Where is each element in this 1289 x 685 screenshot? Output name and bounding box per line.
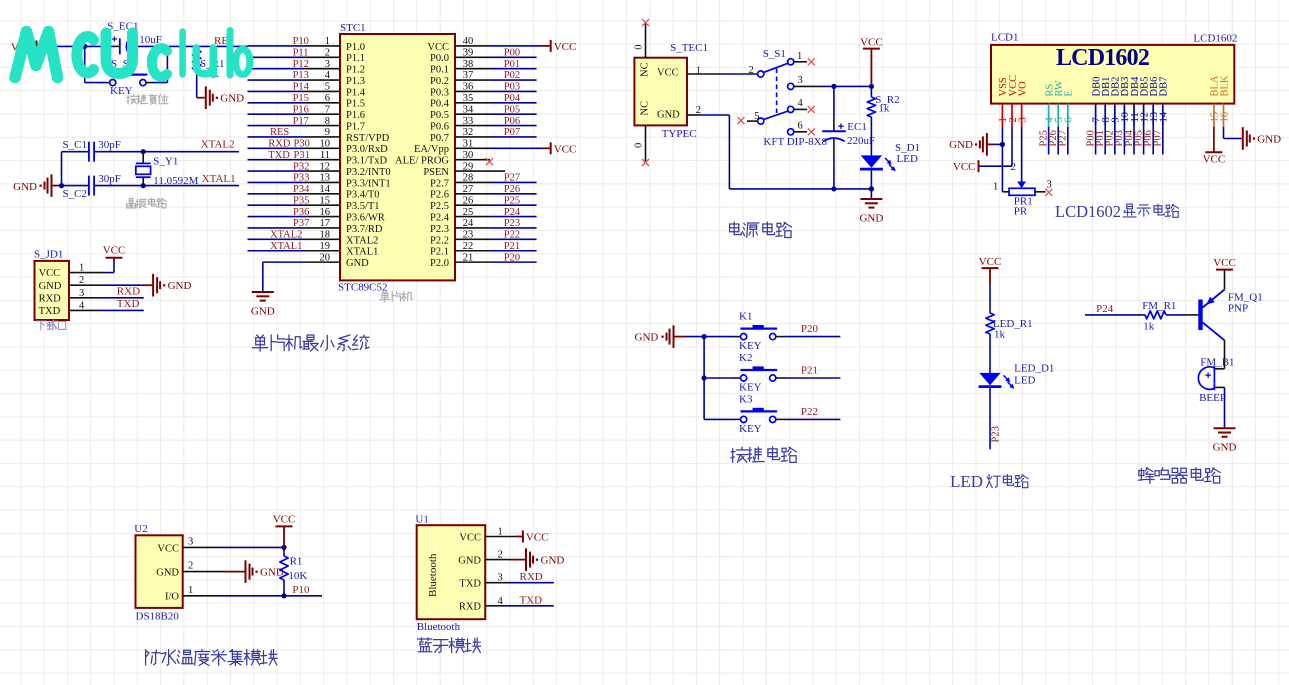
wires RS RW E nets [1048, 127, 1050, 155]
power VCC (backlight) [1205, 151, 1222, 153]
svg-text:K2: K2 [739, 352, 752, 364]
caption crystal circuit (gray) [127, 199, 136, 208]
svg-text:GND: GND [949, 139, 973, 151]
svg-text:TXD: TXD [459, 579, 481, 590]
no-connect X bottom [642, 159, 649, 166]
svg-text:TXD: TXD [39, 306, 61, 317]
svg-text:P3.6/WR: P3.6/WR [346, 213, 385, 224]
svg-text:P3.7/RD: P3.7/RD [346, 224, 383, 235]
bottom rail wire [729, 188, 871, 190]
svg-text:VCC: VCC [1213, 257, 1236, 269]
svg-text:K3: K3 [739, 393, 753, 405]
no-connect X pin30 [486, 158, 493, 165]
svg-text:LED: LED [897, 153, 918, 165]
svg-text:P0.7: P0.7 [430, 133, 449, 144]
wire U2 pin1 I/O [183, 595, 220, 597]
wire LED to GND [870, 169, 872, 199]
svg-text:S_S1: S_S1 [763, 48, 786, 60]
svg-text:PR: PR [1014, 205, 1028, 217]
svg-text:GND: GND [260, 567, 284, 579]
svg-text:TXD: TXD [268, 150, 290, 161]
svg-text:GND: GND [657, 109, 680, 120]
svg-text:2: 2 [749, 65, 754, 76]
svg-text:VCC: VCC [459, 532, 481, 543]
resistor R1 10K [283, 547, 285, 556]
no-connect X top [642, 19, 649, 26]
wire pin31 to VCC [490, 147, 541, 149]
wire EC1 to bottom rail [833, 139, 835, 156]
svg-text:STC1: STC1 [340, 22, 366, 34]
wire collector to buzzer [1224, 340, 1226, 369]
wire pin2 to GND [69, 284, 102, 286]
caption key-reset (gray) [127, 95, 137, 104]
wire K3 to P22 [776, 418, 786, 420]
caption waterproof temperature module [146, 650, 161, 665]
svg-text:P2.6: P2.6 [430, 190, 449, 201]
svg-text:3: 3 [188, 536, 193, 547]
svg-text:VCC: VCC [953, 161, 976, 173]
svg-text:VCC: VCC [427, 42, 449, 53]
svg-text:1: 1 [993, 181, 998, 192]
caption buzzer circuit [1138, 468, 1154, 484]
wire S_S2 to RES net [146, 82, 150, 84]
svg-text:XTAL1: XTAL1 [202, 173, 236, 185]
no-connect X switch pin1 [808, 58, 815, 65]
svg-text:GND: GND [156, 568, 179, 579]
svg-text:P32: P32 [293, 161, 309, 172]
capacitor EC1 220uF [822, 130, 846, 132]
svg-text:P1.2: P1.2 [346, 65, 365, 76]
switch S_S2 (KEY) [110, 80, 116, 86]
svg-text:6: 6 [1064, 117, 1075, 122]
resistor S_R2 1k [870, 86, 872, 97]
svg-text:P12: P12 [293, 59, 309, 70]
power VCC (U1) [522, 531, 524, 543]
svg-text:TXD: TXD [520, 594, 543, 606]
caption key circuit [731, 447, 748, 462]
svg-text:GND: GND [1257, 134, 1281, 146]
ic LCD1 LCD1602 [991, 45, 1234, 104]
svg-text:P0.1: P0.1 [430, 65, 449, 76]
caption download port (gray) [36, 321, 46, 330]
node junction cap top [831, 84, 836, 89]
wire emitter to VCC [1224, 270, 1226, 290]
switch pin 3 [788, 83, 794, 89]
wire K1 to P20 [776, 336, 786, 338]
svg-text:LCD1: LCD1 [991, 32, 1019, 44]
svg-text:P1.0: P1.0 [346, 42, 365, 53]
svg-text:P3.2/INT0: P3.2/INT0 [346, 167, 391, 178]
svg-text:S_C2: S_C2 [63, 188, 87, 200]
svg-text:P10: P10 [292, 584, 310, 596]
svg-text:XTAL2: XTAL2 [201, 139, 235, 151]
svg-text:P3.4/T0: P3.4/T0 [346, 190, 380, 201]
switch K1 (KEY) [741, 334, 747, 340]
svg-text:LCD1602: LCD1602 [1056, 45, 1149, 71]
pins LCD1602 [1001, 104, 1003, 127]
svg-text:S_TEC1: S_TEC1 [670, 42, 708, 54]
switch pin 4 [788, 106, 794, 112]
power VCC (reset) [36, 40, 38, 52]
svg-text:RXD: RXD [459, 602, 482, 613]
wire pin3 to VCC rail [794, 85, 823, 87]
svg-text:P27: P27 [1058, 130, 1069, 146]
svg-text:TXD: TXD [117, 298, 140, 310]
capacitor S_C1 30pF [62, 151, 89, 153]
svg-text:VCC: VCC [103, 245, 126, 257]
svg-text:BLK: BLK [1219, 75, 1230, 96]
svg-text:P04: P04 [504, 93, 521, 104]
wire VCC rail down [870, 49, 872, 87]
power VCC (S_JD1) [106, 257, 123, 259]
switch pin 6 [788, 129, 794, 135]
svg-text:P22: P22 [801, 406, 818, 418]
svg-text:S_JD1: S_JD1 [34, 249, 63, 261]
wire GND to junction [52, 185, 62, 187]
wire VCC to S_EC1 [37, 45, 114, 47]
svg-text:DB7: DB7 [1159, 77, 1170, 97]
ground GND (S_JD1) [152, 274, 154, 297]
svg-text:P1.3: P1.3 [346, 76, 365, 87]
svg-text:VO: VO [1017, 81, 1028, 97]
wire keys vertical [703, 337, 705, 420]
ground GND (LCD right) [1242, 127, 1244, 150]
svg-text:RST/VPD: RST/VPD [346, 133, 390, 144]
svg-text:XTAL2: XTAL2 [270, 230, 302, 241]
svg-text:3: 3 [1017, 117, 1028, 122]
ic STC1 STC89C52 [340, 34, 455, 280]
wire K2 to P21 [776, 377, 786, 379]
wire U2 pin2 to GND [183, 571, 225, 573]
svg-text:RXD: RXD [520, 571, 543, 583]
wire S_EC1 to RES [130, 45, 134, 47]
svg-text:P01: P01 [504, 59, 520, 70]
node junction crystal bottom [141, 183, 146, 188]
svg-text:VCC: VCC [1203, 153, 1226, 165]
power VCC (pin31) [550, 142, 552, 154]
ic U1 Bluetooth [417, 525, 486, 619]
wire to K2 [704, 377, 733, 379]
svg-text:2: 2 [188, 561, 193, 572]
svg-text:VCC: VCC [554, 143, 577, 155]
pin3 PR1 stub [1035, 191, 1046, 193]
svg-text:PNP: PNP [1228, 303, 1248, 315]
ground GND (U2) [245, 560, 247, 583]
svg-text:KFT DIP-8X8: KFT DIP-8X8 [763, 136, 827, 148]
svg-text:P07: P07 [1153, 130, 1164, 146]
no-connect X PR1 pin3 [1045, 189, 1052, 196]
svg-text:10K: 10K [288, 570, 307, 582]
svg-text:P26: P26 [504, 184, 520, 195]
svg-text:14: 14 [1159, 111, 1170, 122]
svg-text:P0.5: P0.5 [430, 110, 449, 121]
power VCC (pin40) [550, 40, 552, 52]
wire S_R2 to LED [870, 117, 872, 155]
svg-text:P11: P11 [293, 47, 309, 58]
svg-text:P2.5: P2.5 [430, 201, 449, 212]
wire S_R1 to GND [196, 70, 198, 98]
ground GND (buzzer) [1214, 427, 1236, 429]
svg-text:VCC: VCC [273, 514, 296, 526]
wire VO to PR1 wiper [1021, 127, 1023, 182]
resistor S_R1 10K [196, 46, 198, 50]
svg-text:LED_D1: LED_D1 [1014, 363, 1054, 375]
wire pin3 RXD [69, 297, 102, 299]
switch pin 5 [758, 118, 764, 124]
svg-text:P07: P07 [504, 127, 520, 138]
connector S_TEC1 TYPEC [634, 58, 687, 126]
svg-text:P3.3/INT1: P3.3/INT1 [346, 178, 391, 189]
svg-text:0: 0 [634, 143, 645, 148]
caption MCU (gray) [380, 291, 390, 302]
svg-text:P35: P35 [293, 195, 309, 206]
led LED_D1 [979, 373, 1000, 385]
buzzer FM_B1 BEEP [1214, 368, 1224, 370]
svg-text:P00: P00 [504, 47, 520, 58]
svg-text:1k: 1k [878, 103, 890, 115]
svg-text:GND: GND [168, 280, 192, 292]
switch K2 (KEY) [741, 375, 747, 381]
svg-text:P2.7: P2.7 [430, 178, 449, 189]
svg-text:VCC: VCC [554, 41, 577, 53]
svg-text:RXD: RXD [268, 139, 291, 150]
svg-text:2: 2 [1011, 162, 1016, 173]
wire U1 pin3 RXD net [485, 582, 508, 584]
node junction cap bottom [831, 186, 836, 191]
svg-text:TYPEC: TYPEC [662, 128, 697, 140]
wire BLK to GND [1223, 127, 1225, 139]
svg-text:P05: P05 [504, 104, 520, 115]
svg-text:GND: GND [220, 93, 244, 105]
svg-text:KEY: KEY [110, 85, 133, 97]
pins STC1 right [455, 261, 490, 263]
svg-text:P3.1/TxD: P3.1/TxD [346, 156, 388, 167]
transistor FM_Q1 PNP [1198, 300, 1202, 331]
svg-text:1k: 1k [994, 329, 1006, 341]
svg-text:P10: P10 [293, 36, 309, 47]
switch blade 5-4 [763, 111, 788, 120]
svg-text:P15: P15 [293, 93, 309, 104]
svg-text:VCC: VCC [657, 68, 679, 79]
ground GND (power) [860, 198, 882, 200]
svg-text:S_Y1: S_Y1 [153, 156, 178, 168]
led S_D1 [861, 155, 882, 167]
wire XTAL1 net [94, 185, 239, 187]
logo MCUclub [15, 31, 250, 78]
svg-text:VCC: VCC [860, 36, 883, 48]
wire pin4 TXD [69, 309, 102, 311]
svg-text:VCC: VCC [39, 268, 61, 279]
svg-text:I/O: I/O [165, 592, 179, 603]
wire LED_D1 to P23 [989, 387, 991, 450]
svg-text:VCC: VCC [979, 256, 1002, 268]
svg-text:GND: GND [859, 213, 883, 225]
svg-text:P37: P37 [293, 218, 309, 229]
svg-text:GND: GND [635, 332, 659, 344]
svg-text:GND: GND [346, 258, 369, 269]
svg-text:P33: P33 [293, 173, 309, 184]
svg-text:P23: P23 [504, 218, 520, 229]
svg-text:P2.2: P2.2 [430, 235, 449, 246]
crystal S_Y1 11.0592M [142, 152, 144, 164]
svg-text:P21: P21 [504, 241, 520, 252]
no-connect X switch pin6 [808, 128, 815, 135]
svg-text:LED: LED [1014, 374, 1035, 386]
wire pin20 to GND [263, 261, 305, 263]
svg-text:3: 3 [798, 75, 803, 86]
svg-text:P1.6: P1.6 [346, 110, 365, 121]
ground GND (STC1) [252, 291, 274, 293]
svg-text:U1: U1 [415, 514, 428, 526]
svg-text:P27: P27 [504, 173, 520, 184]
svg-text:VCC: VCC [157, 543, 179, 554]
svg-text:3: 3 [1047, 180, 1052, 191]
wire to EC1 [833, 86, 835, 117]
caption power circuit [730, 222, 742, 235]
wire LED_R1 to LED_D1 [989, 334, 991, 373]
svg-text:P13: P13 [293, 70, 309, 81]
wires P27-P20 nets [490, 181, 537, 183]
svg-text:P1.5: P1.5 [346, 99, 365, 110]
wire XTAL2 net [94, 151, 239, 153]
svg-text:RXD: RXD [39, 293, 62, 304]
switch dashed link [776, 69, 778, 116]
svg-text:E: E [1064, 90, 1075, 96]
node junction R1/P10 [281, 593, 286, 598]
svg-text:P31: P31 [294, 150, 310, 161]
no-connect X switch pin4 [808, 106, 815, 113]
node junction VCC/R1 [281, 545, 286, 550]
svg-text:P20: P20 [504, 252, 520, 263]
svg-text:GND: GND [1213, 442, 1237, 454]
svg-text:30pF: 30pF [98, 139, 121, 151]
wire VCC to pin2 [1011, 127, 1013, 167]
svg-text:XTAL2: XTAL2 [346, 235, 378, 246]
svg-text:P20: P20 [801, 323, 819, 335]
wire junction down to S_S2 [84, 46, 86, 82]
svg-text:STC89C52: STC89C52 [338, 281, 388, 293]
wire BLA to VCC [1213, 127, 1215, 153]
svg-text:R1: R1 [290, 556, 303, 568]
wire pin1 to VCC [69, 272, 106, 274]
wire VCC to LED_R1 [989, 268, 991, 286]
node junction S_C2/GND [59, 183, 64, 188]
svg-text:XTAL1: XTAL1 [270, 241, 302, 252]
svg-text:GND: GND [251, 306, 275, 318]
svg-text:P3.0/RxD: P3.0/RxD [346, 144, 388, 155]
wire junction to PR1 pin1 [1001, 144, 1003, 191]
ground GND (reset) [205, 86, 207, 109]
svg-text:4: 4 [798, 98, 804, 109]
wire pin40 to VCC [490, 45, 541, 47]
wire VSS to GND [1001, 127, 1003, 145]
svg-text:NC: NC [640, 101, 651, 116]
wire U1 pin1 to VCC [485, 536, 516, 538]
svg-text:GND: GND [458, 556, 481, 567]
svg-text:P30: P30 [294, 139, 310, 150]
svg-text:P0.2: P0.2 [430, 76, 449, 87]
svg-text:NC: NC [640, 62, 651, 77]
svg-text:Bluetooth: Bluetooth [427, 553, 439, 597]
wires P00-P07 nets [490, 56, 537, 58]
svg-text:P0.6: P0.6 [430, 121, 449, 132]
node junction VCC/S_S2 [82, 44, 87, 49]
svg-text:XTAL1: XTAL1 [346, 247, 378, 258]
wire P24 to FM_R1 [1085, 314, 1145, 316]
wires STC1 left nets [248, 45, 306, 47]
wire left vertical C1-C2 [61, 152, 63, 186]
no-connect X switch pin5 [738, 117, 745, 124]
svg-text:1: 1 [188, 585, 193, 596]
wire U1 pin2 to GND [485, 559, 510, 561]
svg-text:GND: GND [39, 281, 62, 292]
svg-text:KEY: KEY [739, 340, 762, 352]
svg-text:P0.4: P0.4 [430, 99, 450, 110]
node junction K1 [702, 334, 707, 339]
svg-text:P14: P14 [293, 82, 310, 93]
svg-text:P24: P24 [504, 207, 521, 218]
svg-text:GND: GND [541, 555, 565, 567]
svg-text:PSEN: PSEN [423, 167, 449, 178]
svg-text:P34: P34 [293, 184, 310, 195]
svg-text:P2.4: P2.4 [430, 213, 450, 224]
caption bluetooth module [418, 638, 432, 652]
svg-text:GND: GND [13, 181, 37, 193]
svg-text:FM_Q1: FM_Q1 [1228, 291, 1263, 303]
svg-text:P1.4: P1.4 [346, 87, 366, 98]
svg-text:P16: P16 [293, 104, 309, 115]
svg-text:P23: P23 [991, 426, 1002, 442]
svg-text:1k: 1k [1143, 321, 1155, 333]
node junction rail/pin3 [869, 84, 874, 89]
svg-text:KEY: KEY [739, 423, 762, 435]
svg-text:RXD: RXD [117, 286, 140, 298]
svg-text:EC1: EC1 [847, 121, 867, 133]
wire U2 pin3 to VCC rail [183, 546, 220, 548]
svg-text:K1: K1 [739, 311, 752, 323]
caption MCU minimal system [252, 335, 267, 351]
capacitor S_C2 30pF [62, 185, 89, 187]
svg-text:DS18B20: DS18B20 [136, 611, 180, 623]
svg-text:P2.0: P2.0 [430, 258, 449, 269]
resistor LED_R1 1k [986, 313, 994, 334]
node junction K2 [702, 375, 707, 380]
svg-text:P02: P02 [504, 70, 520, 81]
svg-text:30pF: 30pF [98, 173, 121, 185]
svg-text:1: 1 [797, 51, 802, 62]
wire FM_R1 to base [1166, 314, 1185, 316]
switch pin 1 [788, 59, 794, 65]
potentiometer PR1 [1017, 182, 1026, 189]
node junction bottom rail right [869, 186, 874, 191]
svg-text:P1.7: P1.7 [346, 121, 365, 132]
svg-text:P1.1: P1.1 [346, 53, 365, 64]
svg-text:U2: U2 [134, 523, 147, 535]
svg-text:P25: P25 [504, 195, 520, 206]
wire TYPEC pin1 to switch [687, 73, 721, 75]
svg-text:LCD1602: LCD1602 [1193, 33, 1237, 45]
wire U1 pin4 TXD net [485, 605, 508, 607]
svg-text:BEEP: BEEP [1199, 392, 1226, 404]
svg-text:P36: P36 [293, 207, 309, 218]
wire VCC down [283, 526, 285, 547]
svg-text:EA/Vpp: EA/Vpp [414, 144, 449, 155]
resistor FM_R1 1k [1145, 311, 1166, 319]
ic U2 DS18B20 [136, 535, 183, 608]
switch K3 (KEY) [741, 416, 747, 422]
svg-text:P2.3: P2.3 [430, 224, 449, 235]
capacitor S_EC1 10uF [119, 38, 121, 54]
